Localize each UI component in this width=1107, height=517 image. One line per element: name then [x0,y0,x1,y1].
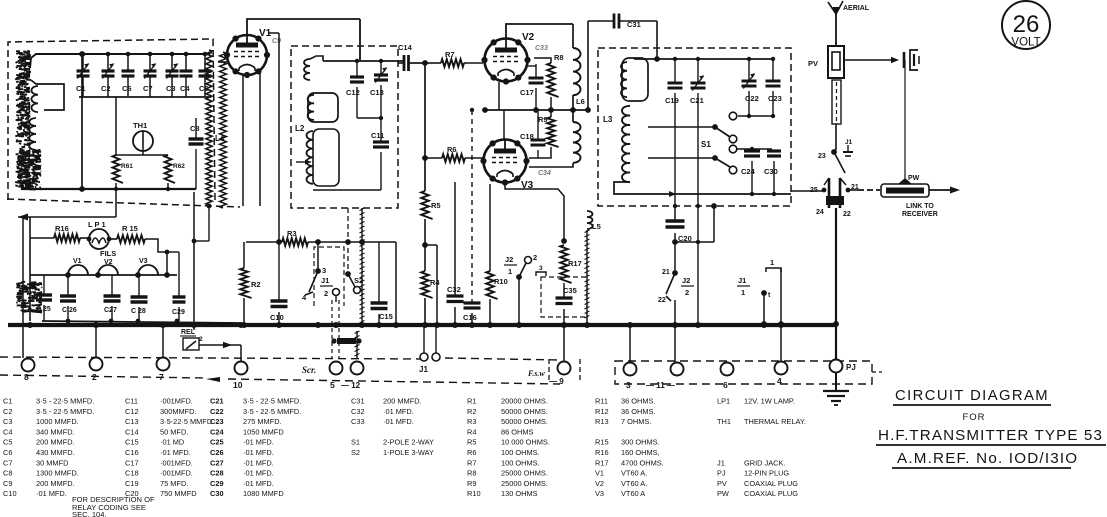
svg-text:50000 OHMS.: 50000 OHMS. [501,417,548,426]
dashed enclosure L3 tank [598,48,791,206]
filament hump V3 [138,265,158,275]
wire L6 mid gap [572,95,574,122]
svg-text:V3: V3 [139,258,148,265]
svg-text:·01 MFD.: ·01 MFD. [243,469,274,478]
svg-text:2: 2 [685,288,689,297]
svg-text:J2: J2 [505,255,513,264]
node R5 R4 junction [422,242,428,248]
terminal 4 [775,362,788,375]
resistor R16 [30,237,54,239]
switch J1-2 sleeve contact [333,289,340,296]
svg-text:R7: R7 [445,50,455,59]
svg-text:C1: C1 [76,84,86,93]
node inner frame bottom [79,186,85,192]
wire PV branch to monitor socket [844,59,897,61]
svg-text:5: 5 [330,380,335,390]
resistor R2 [243,242,245,268]
resistor R7 [425,62,441,64]
shielded lead L2 to bus [361,208,363,322]
switch J2-1 contact 2 [525,257,532,264]
svg-text:·01 MFD.: ·01 MFD. [243,438,274,447]
svg-text:·001MFD.: ·001MFD. [160,458,193,467]
wire common rail y110 [485,109,588,111]
svg-text:PV: PV [808,59,818,68]
svg-text:R16: R16 [595,448,609,457]
dashed terminal rail upper left [0,357,420,359]
svg-text:C 28: C 28 [131,308,146,315]
svg-text:1000 MMFD.: 1000 MMFD. [36,417,79,426]
switch J2-2 contact 22 [666,296,671,301]
wire link 194-209 [194,240,209,242]
wire V3 left drop to C32 [454,182,456,295]
wire junction to C15 side [425,244,437,246]
svg-text:AERIAL: AERIAL [843,5,870,12]
wire C21 drop/bus riser [696,204,700,208]
svg-text:R2: R2 [467,407,476,416]
wire top rail drop to C14 node [359,19,361,61]
wire heater bottoms to box bottom [115,183,117,189]
wire left drop to LP1 row [29,217,31,321]
svg-text:12-PIN PLUG: 12-PIN PLUG [744,469,789,478]
svg-text:— 12: — 12 [341,381,361,390]
fuse PV lower tube [832,80,841,124]
svg-text:C8: C8 [190,124,200,133]
svg-text:3·5 - 22·5 MMFD.: 3·5 - 22·5 MMFD. [243,397,301,406]
svg-text:6: 6 [723,380,728,390]
dashed screen around C35 [541,277,587,317]
svg-text:L4: L4 [215,134,225,143]
svg-text:C29: C29 [210,479,224,488]
svg-text:C28: C28 [210,469,224,478]
coil L6 upper half [573,48,581,95]
transformer T1 primary winding [206,50,212,205]
thermal relay TH1 [133,131,153,151]
capacitor C31 [588,20,613,22]
svg-text:A.M.REF. No. IOD/I3IO: A.M.REF. No. IOD/I3IO [897,450,1078,467]
svg-text:4700 OHMS.: 4700 OHMS. [621,458,664,467]
svg-text:V2: V2 [522,32,535,43]
svg-text:— 9: — 9 [549,377,564,386]
switch J1-1 pole [761,290,767,296]
svg-text:26: 26 [1013,11,1040,38]
svg-text:R15: R15 [595,438,609,447]
svg-text:C9: C9 [3,479,12,488]
svg-text:S1: S1 [701,140,711,149]
svg-text:V1: V1 [73,258,82,265]
wire top bus inside tuning unit [30,54,210,68]
wire cap bottom rail [42,321,240,323]
svg-text:L3: L3 [603,115,613,124]
svg-text:R13: R13 [595,417,609,426]
capacitor C7 [149,54,151,71]
coil L5 pickup [587,211,593,229]
switch S1 pole 1 [648,126,715,128]
wire V2 cathode drop [498,82,500,110]
wire jack sleeve to bus [835,208,837,360]
svg-text:200 MMFD.: 200 MMFD. [36,438,75,447]
svg-text:3: 3 [539,265,543,272]
coil L2a top [304,59,310,80]
coil L1a left winding [25,56,32,80]
svg-text:C 26: C 26 [62,307,77,314]
terminal 10 [235,362,248,375]
wire PW to receiver arrow [929,189,952,191]
wire link riser to tank bottom [713,206,715,242]
dashed enclosure L2 oscillator [291,46,398,208]
svg-text:20000 OHMS.: 20000 OHMS. [501,397,548,406]
svg-text:36 OHMS.: 36 OHMS. [621,407,656,416]
svg-text:COAXIAL PLUG: COAXIAL PLUG [744,489,798,498]
svg-text:C2: C2 [3,407,12,416]
svg-text:22: 22 [658,297,666,304]
svg-text:C34: C34 [538,170,551,177]
svg-text:C19: C19 [665,96,679,105]
svg-text:340 MMFD.: 340 MMFD. [36,427,75,436]
svg-text:C31: C31 [627,20,641,29]
svg-text:C21: C21 [690,96,704,105]
arrow on lower rail [206,377,220,382]
transformer T1 secondary winding [220,52,227,208]
terminal 8 [22,359,35,372]
terminal 2 [90,358,103,371]
wire to terminal 11 [674,300,676,362]
tube V3 [484,140,527,183]
svg-text:C24: C24 [210,427,224,436]
switch J1-2 blade [309,271,318,292]
svg-text:·01 MFD.: ·01 MFD. [243,448,274,457]
svg-text:C32: C32 [351,407,365,416]
svg-text:1: 1 [508,267,512,276]
wire V1 aux drop [278,33,280,242]
capacitor C3 [171,54,173,71]
dark winding mass lower-left [32,179,38,182]
svg-text:C1: C1 [3,397,12,406]
svg-text:R4: R4 [467,427,476,436]
svg-text:·01 MFD.: ·01 MFD. [243,479,274,488]
wire C12 C13 junction [357,117,381,119]
wire feed line y217 with arrow [18,216,116,218]
svg-text:R62: R62 [173,163,185,170]
capacitor C35 [563,283,565,297]
capacitor C24 [744,149,760,152]
node C20 bottom [672,239,678,245]
wire R4 to bus [424,298,426,324]
svg-text:C3: C3 [166,84,176,93]
node C14 output [422,60,428,66]
svg-text:C15: C15 [379,312,393,321]
wire V1 plate to top rail [247,19,360,35]
dashed bracket around terminal 9 [548,359,550,381]
capacitor C20 [666,219,685,222]
wire J2-1 pole to bus [518,277,520,324]
jack J1 blade [834,152,845,173]
svg-text:3·5 - 22·5 MMFD.: 3·5 - 22·5 MMFD. [36,407,94,416]
dashed bottom edge of tuning unit [7,199,240,207]
svg-text:R8: R8 [554,53,564,62]
wire TH1 row [116,154,168,156]
grid jack J1 terminals [420,353,428,361]
svg-text:C15: C15 [125,438,139,447]
wire drop to grid jack [436,245,438,324]
svg-text:VOLT: VOLT [1011,37,1040,49]
svg-text:R10: R10 [494,277,508,286]
svg-text:2-POLE 2-WAY: 2-POLE 2-WAY [383,438,434,447]
svg-text:PJ: PJ [846,363,856,372]
capacitor C23 [772,59,774,80]
relay contact bar below bus [337,338,356,344]
svg-text:C11: C11 [125,397,138,406]
wire S1 contact c to C24 C30 tops [737,148,772,150]
switch S1 contact b [729,135,737,143]
svg-text:C14: C14 [125,427,139,436]
wire socket drop to PW [904,60,906,182]
switch S1 blade 2 [715,158,730,167]
svg-text:·01 MFD.: ·01 MFD. [160,448,191,457]
svg-text:C21: C21 [210,397,224,406]
coil L3 upper link [622,58,648,101]
wire L3 bottom bend [614,182,791,194]
svg-text:C7: C7 [143,84,153,93]
svg-text:C12: C12 [346,88,360,97]
capacitor C28 [138,275,140,296]
resistor R10 [489,184,491,271]
svg-text:10: 10 [233,380,243,390]
wire L5 to bus [586,318,588,324]
svg-text:1-POLE 3-WAY: 1-POLE 3-WAY [383,448,434,457]
svg-text:C18: C18 [125,469,139,478]
svg-text:J2: J2 [682,276,690,285]
svg-text:750 MMFD: 750 MMFD [160,489,197,498]
svg-text:C23: C23 [210,417,224,426]
coil L1d winding [33,150,40,182]
capacitor C32 [447,294,464,297]
svg-text:3·5-22·5 MMFD.: 3·5-22·5 MMFD. [160,417,214,426]
capacitor C25 [43,275,45,294]
svg-text:FILS: FILS [100,249,116,258]
svg-text:C11: C11 [371,131,384,140]
svg-text:2: 2 [199,336,203,343]
svg-text:J1: J1 [738,276,746,285]
capacitor C19 [674,59,676,82]
svg-text:25000 OHMS.: 25000 OHMS. [501,469,548,478]
capacitor C17 [535,64,537,77]
svg-text:V2: V2 [595,479,604,488]
wire terminal 3 riser [629,325,631,362]
svg-text:30 MMFD: 30 MMFD [36,458,68,467]
monitor socket [903,52,906,68]
wire V3 plate riser [503,110,505,139]
switch J1-2 contact 4 arrow [305,292,313,295]
svg-text:LINK TO: LINK TO [906,203,934,210]
capacitor C26 [67,275,69,295]
wire drop from tuning box to y217 [115,189,117,217]
svg-text:C23: C23 [768,94,782,103]
switch S1 contact a [729,112,737,120]
coaxial plug PW [881,184,929,197]
svg-text:C24: C24 [741,167,756,176]
wire tank to jack tip [791,190,824,192]
wire C31 to L3 box [656,21,658,59]
capacitor C29 [178,258,180,296]
wire filament rail [30,274,177,276]
capacitor C22 trimmer [748,59,750,80]
resistor R6 [425,157,442,159]
capacitor C10 [278,242,280,300]
node R6 tap [422,155,428,161]
capacitor C8 [195,118,197,138]
wire V3 cathode bottom [505,184,564,241]
capacitor C11 [373,140,389,143]
svg-text:REL: REL [181,329,196,336]
wire L6 top feed [572,24,574,48]
svg-text:C7: C7 [3,458,12,467]
node R3 junctions [276,239,282,245]
svg-text:R17: R17 [568,259,582,268]
svg-text:C8: C8 [3,469,12,478]
svg-text:C35: C35 [563,286,577,295]
svg-text:1: 1 [770,258,774,267]
wire tuning unit bottom [22,186,196,189]
wire terminal 2 riser [95,325,97,358]
svg-text:J1: J1 [419,365,428,374]
wire PV to jack [835,124,837,150]
svg-text:2: 2 [533,253,537,262]
wire V2 plate to top rail [506,24,573,38]
wire B+ riser to C31 [587,21,589,110]
dashed enclosure PJ plug strip [615,361,872,384]
svg-text:C31: C31 [351,397,365,406]
coil L6 lower half [573,122,581,163]
terminal 9 [558,362,571,375]
dashed enclosure aerial tuning unit [8,39,215,200]
svg-text:R5: R5 [431,201,441,210]
jack J1 frame cap symbol [847,145,849,152]
svg-text:C33: C33 [351,417,365,426]
jack J1 contact 23 [831,149,837,155]
resistor R9 [550,110,552,117]
node top bus to transformer [79,51,85,57]
capacitor C13 trimmer [380,61,382,74]
svg-text:23: 23 [818,153,826,160]
capacitor C27 [111,275,113,295]
svg-text:COAXIAL PLUG: COAXIAL PLUG [744,479,798,488]
svg-text:C27: C27 [104,307,117,314]
svg-text:PW: PW [717,489,729,498]
svg-text:R16: R16 [55,224,69,233]
tube V2 [485,39,528,82]
svg-text:PV: PV [717,479,727,488]
wire drop x194 [193,192,195,330]
svg-text:SEC. 104.: SEC. 104. [72,510,107,517]
wire L6 bottom to V3 plate [529,163,573,167]
wire R61 top lead [115,97,117,155]
svg-text:·001MFD.: ·001MFD. [160,397,193,406]
svg-text:10 000 OHMS.: 10 000 OHMS. [501,438,550,447]
wire terminal 7 riser [162,325,164,358]
svg-text:86 OHMS: 86 OHMS [501,427,534,436]
switch J2-1 contact 3 bracket [536,272,546,276]
svg-text:R2: R2 [251,280,261,289]
switch J2-2 blade [666,273,675,294]
grid jack J1 leads [423,325,425,353]
ground symbol [835,373,837,390]
svg-text:C16: C16 [125,448,139,457]
switch S1 blade 1 [715,127,730,137]
svg-text:J1: J1 [717,458,725,467]
svg-text:R 15: R 15 [122,224,138,233]
aerial symbol [835,8,837,20]
wire tank top rail [634,58,773,60]
svg-text:R3: R3 [467,417,476,426]
svg-text:C30: C30 [764,167,778,176]
filament hump V1 [68,265,88,275]
svg-text:CIRCUIT DIAGRAM: CIRCUIT DIAGRAM [895,388,1049,404]
svg-text:H.F.TRANSMITTER TYPE 53: H.F.TRANSMITTER TYPE 53 [878,427,1103,444]
wire contact 4 drop to terminal [780,324,782,361]
wire V1 grid to transformer [218,61,227,63]
hatched drop to terminal 12 [356,331,358,358]
svg-text:C10: C10 [270,313,284,322]
terminal 3 [624,363,637,376]
svg-text:R5: R5 [467,438,476,447]
svg-text:C12: C12 [125,407,139,416]
resistor R8 [534,58,551,63]
svg-text:LP1: LP1 [717,397,730,406]
svg-text:·01 MFD.: ·01 MFD. [383,417,414,426]
svg-text:C10: C10 [3,489,17,498]
svg-text:·01 MFD.: ·01 MFD. [243,458,274,467]
switch S2 contact [354,287,361,294]
wire C20 bottom link [675,241,714,243]
svg-text:C29: C29 [172,309,185,316]
arrow on tank bottom wire [669,191,676,197]
jack J1 body [828,178,831,208]
svg-text:C3: C3 [3,417,12,426]
capacitor C30 [767,149,781,152]
svg-text:C32: C32 [447,285,461,294]
svg-text:50000 OHMS.: 50000 OHMS. [501,407,548,416]
svg-text:21: 21 [662,269,670,276]
svg-text:C17: C17 [520,88,534,97]
svg-text:22: 22 [843,211,851,218]
dark winding mass left [19,125,22,127]
svg-text:75 MFD.: 75 MFD. [160,479,188,488]
wire L2 box bottom rail [313,189,381,191]
wire contact 1 drop [780,268,782,324]
svg-text:L2: L2 [295,124,305,133]
svg-text:R8: R8 [467,469,476,478]
svg-text:— 11 —: — 11 — [646,381,675,390]
svg-text:RECEIVER: RECEIVER [902,211,938,218]
svg-text:R61: R61 [121,163,133,170]
svg-text:3·5 - 22·5 MMFD.: 3·5 - 22·5 MMFD. [243,407,301,416]
svg-text:300MMFD.: 300MMFD. [160,407,197,416]
svg-text:C26: C26 [210,448,224,457]
wire secondary top lead [210,50,212,54]
svg-text:200 MMFD.: 200 MMFD. [36,479,75,488]
capacitor C1 [82,54,84,71]
wire capacitor row lower rail [79,96,211,98]
fuse PV body [835,20,837,46]
capacitor C16 [464,301,481,304]
svg-text:FOR: FOR [962,412,985,423]
wire pole to bus [763,293,765,324]
coil L2c bottom [307,131,314,184]
svg-text:12V. 1W LAMP.: 12V. 1W LAMP. [744,397,795,406]
switch S2 pole [345,271,351,277]
dashed lead L2 to S2 [347,208,349,272]
svg-text:C6: C6 [3,448,12,457]
